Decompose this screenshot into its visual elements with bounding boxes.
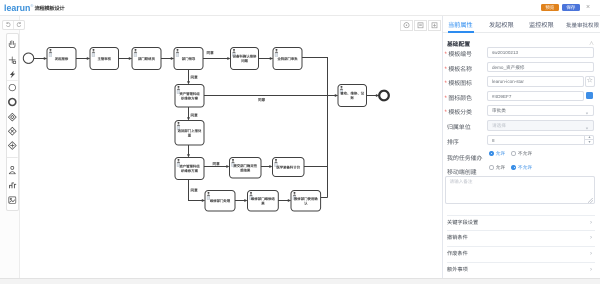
svg-text:维修部门处理: 维修部门处理	[210, 199, 231, 203]
svg-text:同意: 同意	[191, 75, 199, 80]
svg-text:同意: 同意	[213, 161, 221, 166]
svg-text:医学装备科计价: 医学装备科计价	[276, 165, 300, 169]
svg-text:同意: 同意	[207, 50, 215, 55]
svg-text:织维修方案: 织维修方案	[181, 169, 199, 173]
svg-text:问题: 问题	[241, 59, 248, 63]
svg-text:主管审核: 主管审核	[97, 57, 111, 61]
svg-text:织维修方案: 织维修方案	[181, 96, 199, 100]
svg-text:果: 果	[260, 201, 265, 205]
svg-text:同意: 同意	[191, 187, 199, 192]
svg-text:同意: 同意	[258, 97, 266, 102]
svg-text:发起报修: 发起报修	[54, 57, 69, 61]
svg-text:部门领导: 部门领导	[182, 57, 196, 61]
svg-text:质结果: 质结果	[240, 168, 251, 172]
svg-text:账: 账	[350, 96, 355, 100]
svg-text:部门联络员: 部门联络员	[138, 57, 156, 61]
svg-text:同意: 同意	[191, 113, 199, 118]
svg-text:全院部门审批: 全院部门审批	[276, 57, 298, 61]
